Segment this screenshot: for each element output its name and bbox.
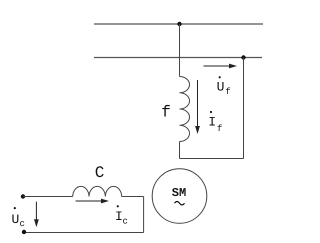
label İc [115, 205, 128, 226]
current arrow If (points down) [195, 80, 200, 134]
svg-text:c: c [20, 219, 25, 229]
wire: bottom of f-loop [180, 158, 244, 160]
wire: bus1 down to inductor f [179, 24, 181, 77]
junction dot on bus 1 [177, 22, 181, 26]
capacitor branch coil C (3 humps bulging up) [73, 186, 122, 196]
tilde inside SM [175, 202, 185, 205]
terminal dot (top left port) [21, 194, 25, 198]
wire: top terminal to capacitor C [23, 196, 73, 198]
current arrow Ic (points right) [76, 199, 109, 204]
svg-text:f: f [161, 104, 171, 122]
svg-text:U: U [217, 79, 225, 94]
junction dot on bus 2 [241, 55, 245, 59]
inductor f (field winding, 4 humps bulging right) [180, 77, 190, 142]
wire: bottom of C-loop [24, 232, 144, 234]
terminal dot (bottom left port) [22, 230, 26, 234]
svg-text:f: f [217, 124, 222, 134]
label İf [208, 111, 222, 134]
label U̇f [217, 76, 231, 97]
svg-text:U: U [12, 212, 20, 227]
wire: right side of C-loop [143, 197, 145, 233]
svg-text:SM: SM [172, 186, 186, 200]
voltage arrow Uf (points right) [204, 64, 238, 69]
bus line 2 [94, 57, 262, 59]
synchronous machine SM [152, 169, 207, 224]
bus line 1 (top) [94, 23, 263, 25]
wire: coil C to right corner [122, 196, 144, 198]
svg-text:C: C [95, 164, 105, 182]
wire: inductor bottom to corner [179, 142, 181, 159]
svg-text:c: c [123, 217, 128, 227]
voltage arrow Uc (points down) [34, 202, 39, 228]
svg-text:f: f [225, 87, 230, 97]
label U̇c [12, 207, 25, 229]
wire: right side of f-loop up to bus 2 [243, 58, 245, 159]
svg-text:I: I [208, 115, 216, 130]
